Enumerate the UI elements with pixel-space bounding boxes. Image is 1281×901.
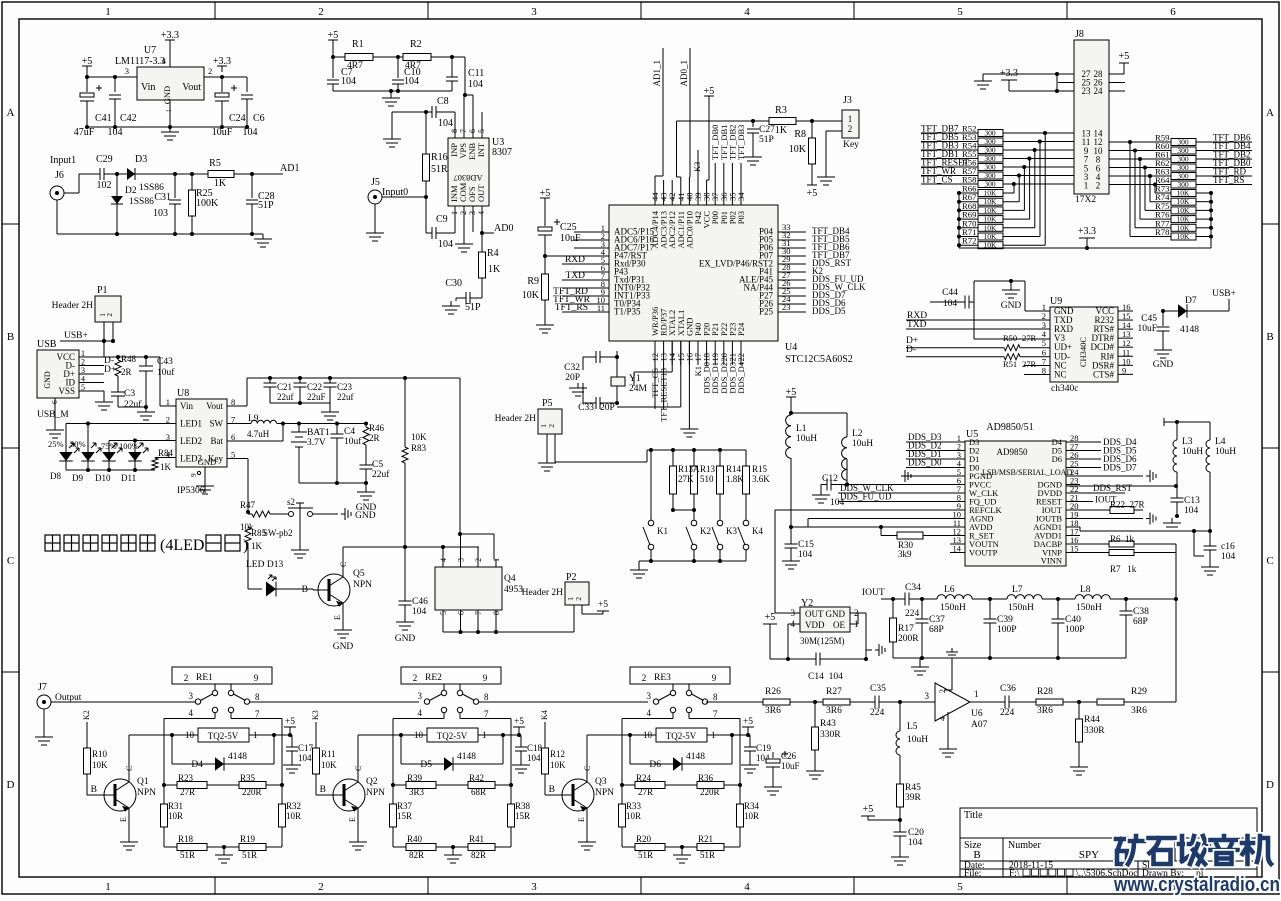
wire Y2 GND/OE: [850, 612, 866, 614]
ground C18: [520, 760, 522, 765]
svg-text:51P: 51P: [258, 200, 274, 211]
svg-text:4: 4: [647, 708, 652, 718]
capacitor C37 68P: [921, 599, 923, 619]
svg-text:K4: K4: [752, 526, 763, 536]
svg-text:C35: C35: [870, 684, 886, 694]
svg-text:OE: OE: [833, 620, 845, 630]
wire U9 pin1: [1024, 281, 1026, 311]
svg-text:P03: P03: [736, 211, 746, 224]
ground P5: [546, 458, 548, 463]
wire U9 pin8 stub: [1024, 365, 1050, 367]
resistor R63 300: [1109, 175, 1171, 177]
Q4 bottom pins: [442, 610, 444, 632]
resistor R8 10K (pullup to +5): [811, 121, 813, 138]
svg-text:3: 3: [647, 691, 652, 701]
diode D5 4148: [400, 735, 402, 764]
svg-text:7: 7: [713, 709, 718, 719]
svg-text:10K: 10K: [1177, 215, 1191, 224]
svg-text:NPN: NPN: [366, 788, 385, 798]
svg-text:104: 104: [1221, 552, 1236, 562]
pullup bottom rail +3.3: [959, 247, 1211, 249]
title block row lines: [960, 837, 1257, 839]
capacitor C31 103: [174, 174, 176, 198]
svg-text:C26: C26: [781, 751, 797, 761]
signal ground U5 pin19: [1066, 518, 1143, 520]
title block column lines: [1002, 838, 1004, 877]
svg-text:510: 510: [700, 474, 714, 484]
ground C15: [790, 556, 792, 561]
svg-text:2: 2: [574, 597, 583, 601]
relay RE3 contacts: [672, 684, 674, 690]
svg-text:102: 102: [97, 180, 112, 191]
svg-text:TXD: TXD: [907, 320, 927, 330]
svg-text:SW-pb2: SW-pb2: [263, 528, 293, 538]
svg-text:+5: +5: [704, 86, 715, 97]
svg-text:3.7V: 3.7V: [307, 438, 326, 448]
svg-text:RE1: RE1: [196, 673, 213, 683]
svg-text:Input0: Input0: [382, 187, 408, 198]
wire U8 Vout to caps rail: [227, 405, 247, 407]
svg-text:1.8K: 1.8K: [726, 474, 744, 484]
zone column ticks: [214, 2, 216, 19]
svg-text:R33: R33: [626, 801, 642, 811]
wire XTAL2 to crystal: [671, 341, 673, 372]
wire bottom rail U7 left: [87, 126, 247, 128]
wire Q2 collector: [357, 735, 359, 782]
wire U9 VCC row: [1161, 309, 1165, 313]
net label TFT_CS (P36): [654, 365, 656, 409]
svg-text:51R: 51R: [638, 850, 653, 860]
svg-text:150nH: 150nH: [1008, 603, 1034, 613]
wire J3 pin2 to ground: [826, 130, 842, 132]
wire Q5 collector to switch net: [342, 547, 344, 577]
svg-text:Q1: Q1: [137, 777, 149, 787]
ground VSS stub: [103, 391, 105, 397]
power flag +5 (J8 pin28): [1109, 73, 1124, 75]
capacitor C38 68P: [1125, 599, 1127, 611]
svg-text:1K: 1K: [775, 125, 788, 136]
svg-text:P5: P5: [542, 398, 553, 409]
svg-text:17X2: 17X2: [1075, 195, 1096, 205]
svg-text:104: 104: [1184, 506, 1199, 516]
switch K4: [743, 520, 749, 526]
wire R71 riser: [1003, 236, 1040, 238]
svg-text:50%: 50%: [70, 439, 86, 449]
signal ground U5 pin24: [1066, 475, 1143, 477]
svg-text:C23: C23: [337, 382, 353, 392]
svg-text:22uf: 22uf: [337, 392, 354, 402]
ground pad RE2: [452, 847, 454, 850]
svg-text:10K: 10K: [1177, 206, 1191, 215]
wire RE1 common to RE2: [250, 701, 419, 703]
svg-text:20P: 20P: [600, 403, 615, 413]
svg-text:DDS_D5: DDS_D5: [812, 306, 846, 316]
ground J5: [374, 204, 376, 228]
svg-text:NC: NC: [1054, 369, 1067, 379]
Q4 top pins: [442, 559, 444, 567]
wire RE2 contact 4 to pad: [443, 713, 445, 719]
svg-text:+5: +5: [328, 30, 339, 41]
svg-text:10uF: 10uF: [781, 761, 800, 771]
svg-text:68P: 68P: [1133, 617, 1148, 627]
svg-text:USB_M: USB_M: [37, 410, 69, 420]
resistor R37 15R (pad shunt left): [392, 785, 394, 804]
svg-text:R38: R38: [515, 801, 531, 811]
relay RE2 outline: [401, 667, 501, 684]
svg-text:C12: C12: [822, 474, 838, 484]
wire U3 OUT to AD0: [481, 206, 483, 233]
wire RE3 common to R26: [708, 701, 763, 703]
svg-text:Title: Title: [964, 810, 983, 821]
svg-text:68P: 68P: [929, 625, 944, 635]
svg-text:1K: 1K: [160, 462, 172, 472]
svg-text:GND: GND: [333, 642, 354, 652]
svg-text:SW: SW: [210, 419, 224, 429]
svg-text:GND: GND: [1153, 360, 1174, 370]
ic U5 pin stubs: [950, 441, 965, 443]
relay coil driver RE3 TQ2-5V: [656, 728, 707, 742]
capacitor c16 104: [1193, 531, 1195, 556]
svg-text:C11: C11: [468, 68, 484, 79]
svg-text:51R: 51R: [242, 850, 257, 860]
svg-text:224: 224: [905, 609, 920, 619]
svg-text:24M: 24M: [629, 384, 648, 394]
svg-text:27R: 27R: [180, 787, 195, 797]
ground pad RE3: [681, 847, 683, 850]
svg-text:3R3: 3R3: [409, 787, 425, 797]
wire R3 key line: [677, 120, 770, 122]
ic U4 top pins: [654, 180, 656, 205]
ground R43: [814, 766, 816, 771]
capacitor C3 22uf: [111, 391, 125, 393]
svg-text:20P: 20P: [565, 373, 580, 383]
svg-text:4: 4: [744, 881, 750, 893]
wire U9 TXD/RXD rows: [906, 319, 1050, 321]
svg-text:D4: D4: [191, 760, 203, 770]
svg-text:104: 104: [527, 753, 541, 763]
resistor R31 10R (pad shunt left): [163, 785, 165, 804]
svg-text:10K: 10K: [984, 223, 998, 232]
svg-text:R4: R4: [487, 248, 499, 259]
resistor R23 27R (pad series left): [164, 784, 177, 786]
wire R73 riser: [1155, 192, 1171, 194]
svg-text:GND: GND: [1001, 301, 1022, 311]
svg-text:104: 104: [830, 498, 845, 508]
capacitor C27 51P: [752, 121, 754, 127]
svg-text:10uH: 10uH: [796, 434, 817, 444]
svg-text:Vout: Vout: [206, 401, 223, 411]
svg-text:7: 7: [255, 709, 260, 719]
svg-text:USB+: USB+: [1212, 289, 1236, 299]
svg-text:10K: 10K: [411, 432, 427, 442]
svg-text:B: B: [302, 585, 308, 595]
crystal Y1 24M: [615, 355, 619, 359]
wire RE2 contact 7 to pad: [459, 713, 461, 719]
wire AGND1 row to c16 node: [1066, 526, 1080, 528]
svg-text:4148: 4148: [1180, 325, 1199, 335]
svg-text:CH340C: CH340C: [1078, 337, 1088, 368]
svg-text:T1/P35: T1/P35: [614, 307, 641, 317]
svg-text:VSS: VSS: [58, 386, 75, 396]
svg-text:AD9850: AD9850: [997, 447, 1028, 457]
svg-text:R13: R13: [700, 464, 716, 474]
svg-text:10K: 10K: [984, 232, 998, 241]
svg-text:C3: C3: [124, 389, 135, 399]
svg-text:10K: 10K: [984, 215, 998, 224]
wire row R54 to J8: [1003, 149, 1074, 151]
svg-text:C15: C15: [798, 540, 814, 550]
svg-text:R16: R16: [431, 152, 448, 163]
net label DDS_RST (U5): [1066, 492, 1125, 494]
power flag +5 below R8: [807, 184, 817, 186]
svg-text:104: 104: [404, 76, 419, 87]
net label DDS_W_CLK: [838, 492, 965, 494]
wire AVDD row: [791, 526, 965, 528]
svg-text:SPY: SPY: [1079, 849, 1099, 861]
svg-text:+5: +5: [765, 612, 776, 623]
svg-text:R31: R31: [168, 801, 183, 811]
svg-text:C22: C22: [307, 382, 322, 392]
svg-text:150nH: 150nH: [940, 603, 966, 613]
svg-text:C36: C36: [1000, 684, 1016, 694]
svg-text:2: 2: [848, 124, 853, 134]
svg-text:L4: L4: [1215, 437, 1226, 447]
capacitors C21 C22 C23 22uf: [247, 377, 460, 379]
svg-text:U6: U6: [971, 709, 983, 719]
wire row R56 to J8: [1003, 166, 1074, 168]
resistor R43 330R: [814, 702, 816, 727]
svg-text:R6 1k: R6 1k: [1110, 534, 1135, 544]
svg-text:220R: 220R: [700, 787, 720, 797]
svg-text:+3.3: +3.3: [213, 56, 231, 67]
ic U3 AD8307: [448, 138, 489, 206]
svg-text:K1: K1: [657, 526, 668, 536]
svg-text:P25: P25: [759, 307, 774, 317]
svg-text:R27: R27: [826, 687, 842, 697]
svg-text:22uf: 22uf: [277, 392, 294, 402]
svg-text:2: 2: [413, 673, 418, 683]
svg-text:224: 224: [870, 708, 885, 718]
svg-text:LED2: LED2: [180, 436, 202, 446]
svg-text:4148: 4148: [228, 752, 247, 762]
svg-text:C9: C9: [436, 214, 448, 225]
svg-text:Q5: Q5: [353, 569, 365, 579]
wire caps bottom + ground: [270, 402, 330, 404]
svg-text:L8: L8: [1080, 585, 1091, 595]
svg-text:D5: D5: [420, 760, 432, 770]
svg-text:D-: D-: [906, 345, 916, 355]
svg-text:ch340c: ch340c: [1051, 384, 1078, 394]
wire C43 net to U8 Vin: [160, 405, 176, 407]
wire R72 riser: [1003, 244, 1045, 246]
svg-text:--: --: [166, 106, 172, 115]
ic U4 left pins: [574, 231, 609, 233]
svg-text:2: 2: [318, 881, 324, 893]
svg-text:C33: C33: [578, 403, 594, 413]
svg-text:R84: R84: [158, 448, 174, 458]
svg-text:1K: 1K: [251, 541, 263, 551]
wire RE3 contact 7 to pad: [688, 713, 690, 719]
svg-text:8: 8: [492, 611, 501, 615]
svg-text:LM1117-3.3: LM1117-3.3: [115, 56, 165, 67]
capacitor C46 104: [404, 547, 406, 601]
svg-text:C45: C45: [1141, 314, 1157, 324]
ground C44 (GND label): [1010, 281, 1012, 285]
svg-text:1: 1: [1084, 181, 1089, 191]
svg-text:C5: C5: [372, 460, 383, 470]
svg-text:8: 8: [255, 692, 260, 702]
net label DDS_FU_UD: [838, 501, 965, 503]
svg-text:3: 3: [531, 881, 537, 893]
ground C20: [899, 852, 901, 857]
resistor R45 39R: [897, 784, 904, 807]
wire DGND row to L3 node: [1066, 485, 1176, 487]
capacitor C7 104: [332, 57, 334, 78]
svg-text:10K: 10K: [1177, 189, 1191, 198]
svg-text:L1: L1: [796, 424, 807, 434]
wire battery bottom rail: [299, 482, 366, 484]
resistor R60 300: [1109, 150, 1171, 152]
capacitor C6 104: [246, 77, 248, 92]
ground C19: [749, 760, 751, 765]
ic U4 STC12C5A60S2 body: [609, 205, 778, 341]
inductor L8 150nH: [1058, 598, 1075, 600]
capacitor C33 20P: [600, 402, 617, 404]
svg-text:B: B: [320, 785, 326, 795]
svg-text:R50: R50: [1003, 333, 1017, 343]
svg-text:24: 24: [1094, 86, 1104, 96]
net label IOUT (U5 pin21): [1066, 501, 1093, 503]
svg-text:+5: +5: [540, 188, 551, 199]
capacitor C17 104: [291, 735, 293, 747]
svg-text:51R: 51R: [431, 164, 448, 175]
svg-text:39R: 39R: [905, 793, 922, 803]
wire R75 riser: [1145, 209, 1171, 211]
svg-text:R46: R46: [369, 423, 385, 433]
svg-text:C21: C21: [277, 382, 292, 392]
svg-text:R5: R5: [209, 158, 221, 169]
svg-text:51R: 51R: [700, 850, 715, 860]
svg-text:10K: 10K: [1177, 232, 1191, 241]
svg-text:+3.3: +3.3: [1078, 226, 1096, 237]
svg-text:Number: Number: [1008, 840, 1041, 851]
svg-text:U8: U8: [177, 388, 189, 399]
svg-text:D6: D6: [649, 760, 661, 770]
svg-text:TFT_DB3: TFT_DB3: [736, 125, 746, 160]
svg-text:C6: C6: [253, 113, 265, 124]
svg-text:K3: K3: [311, 710, 320, 720]
wire U8 gnd pin9: [197, 471, 200, 474]
ground USB_M: [54, 425, 56, 430]
capacitor C41 47uF: [86, 77, 88, 92]
svg-text:A07: A07: [971, 720, 988, 730]
svg-text:R20: R20: [636, 834, 652, 844]
op-amp U6 A07: [935, 683, 970, 721]
wire AGND row: [808, 518, 965, 520]
svg-text:1SS86: 1SS86: [129, 197, 154, 207]
svg-text:1: 1: [848, 114, 853, 124]
svg-text:D6: D6: [1052, 454, 1062, 464]
wire U3 top pins: [454, 112, 456, 138]
svg-text:1: 1: [105, 881, 111, 893]
resistor R61 300: [1109, 158, 1171, 160]
wire R66 riser: [1003, 192, 1014, 194]
svg-text:R8: R8: [794, 129, 806, 140]
inductor L6 150nH: [922, 598, 937, 600]
wire Q4 sources to P2: [443, 631, 574, 633]
svg-text:R7 1k: R7 1k: [1110, 564, 1137, 574]
svg-text:10R: 10R: [168, 811, 183, 821]
wire U8 Key down: [227, 458, 248, 460]
svg-text:9: 9: [254, 673, 259, 683]
svg-text:+5: +5: [598, 600, 608, 610]
ground filter: [919, 658, 921, 662]
svg-text:(4LED: (4LED: [160, 537, 204, 554]
svg-text:C34: C34: [905, 583, 921, 593]
ground J7: [43, 709, 45, 732]
svg-text:R1: R1: [352, 39, 364, 50]
ground MCU pin16: [688, 341, 690, 424]
svg-text:R51: R51: [1003, 359, 1017, 369]
wire R77 riser: [1135, 227, 1171, 229]
svg-text:E: E: [333, 615, 342, 620]
svg-text:5: 5: [957, 881, 963, 893]
wire RE1 contact 4 to pad: [214, 713, 216, 719]
wire Y2 VDD: [788, 623, 800, 625]
svg-text:IP5306: IP5306: [177, 486, 205, 496]
svg-text:25%: 25%: [48, 439, 64, 449]
svg-text:B: B: [549, 785, 555, 795]
svg-text:27R: 27R: [1022, 333, 1037, 343]
svg-text:USB: USB: [37, 339, 57, 350]
relay RE1 contacts: [214, 684, 216, 690]
svg-text:8: 8: [713, 692, 718, 702]
zone row ticks: [2, 223, 19, 225]
svg-text:D: D: [1266, 779, 1274, 791]
svg-text:10K: 10K: [1177, 223, 1191, 232]
ground U7: [169, 100, 171, 127]
resistor R59 300: [1109, 141, 1171, 143]
capacitor C24 10uF: [221, 77, 223, 92]
ground C13: [1171, 518, 1173, 523]
wire row R58 to J8: [1003, 183, 1074, 185]
svg-text:P2: P2: [566, 572, 577, 583]
svg-text:2R: 2R: [121, 367, 132, 377]
svg-text:J8: J8: [1075, 29, 1084, 40]
wire USB VCC to USB+: [103, 341, 105, 357]
ground s2 stem: [299, 508, 301, 545]
svg-text:DDS_D4: DDS_D4: [736, 361, 746, 393]
svg-text:D9: D9: [72, 473, 83, 483]
svg-text:10K: 10K: [92, 760, 108, 770]
inductor L2 10uH: [791, 412, 847, 414]
svg-text:+5: +5: [1119, 51, 1130, 62]
svg-text:Key: Key: [843, 140, 859, 150]
svg-text:3: 3: [125, 66, 129, 76]
wire R69 riser: [1003, 218, 1030, 220]
svg-text:+5: +5: [863, 804, 874, 815]
svg-text:C24: C24: [229, 113, 246, 124]
svg-text:104: 104: [243, 127, 258, 138]
power flag +5 (RE2): [518, 727, 520, 735]
svg-text:Header 2H: Header 2H: [52, 301, 94, 311]
svg-text:R17: R17: [898, 624, 914, 634]
resistor R5 1K: [173, 172, 177, 176]
wire Q5 emitter to ground: [342, 603, 344, 625]
text charging annotation: [45, 535, 155, 551]
svg-text:R21: R21: [698, 834, 713, 844]
inductor L4 10uH: [1177, 421, 1210, 423]
